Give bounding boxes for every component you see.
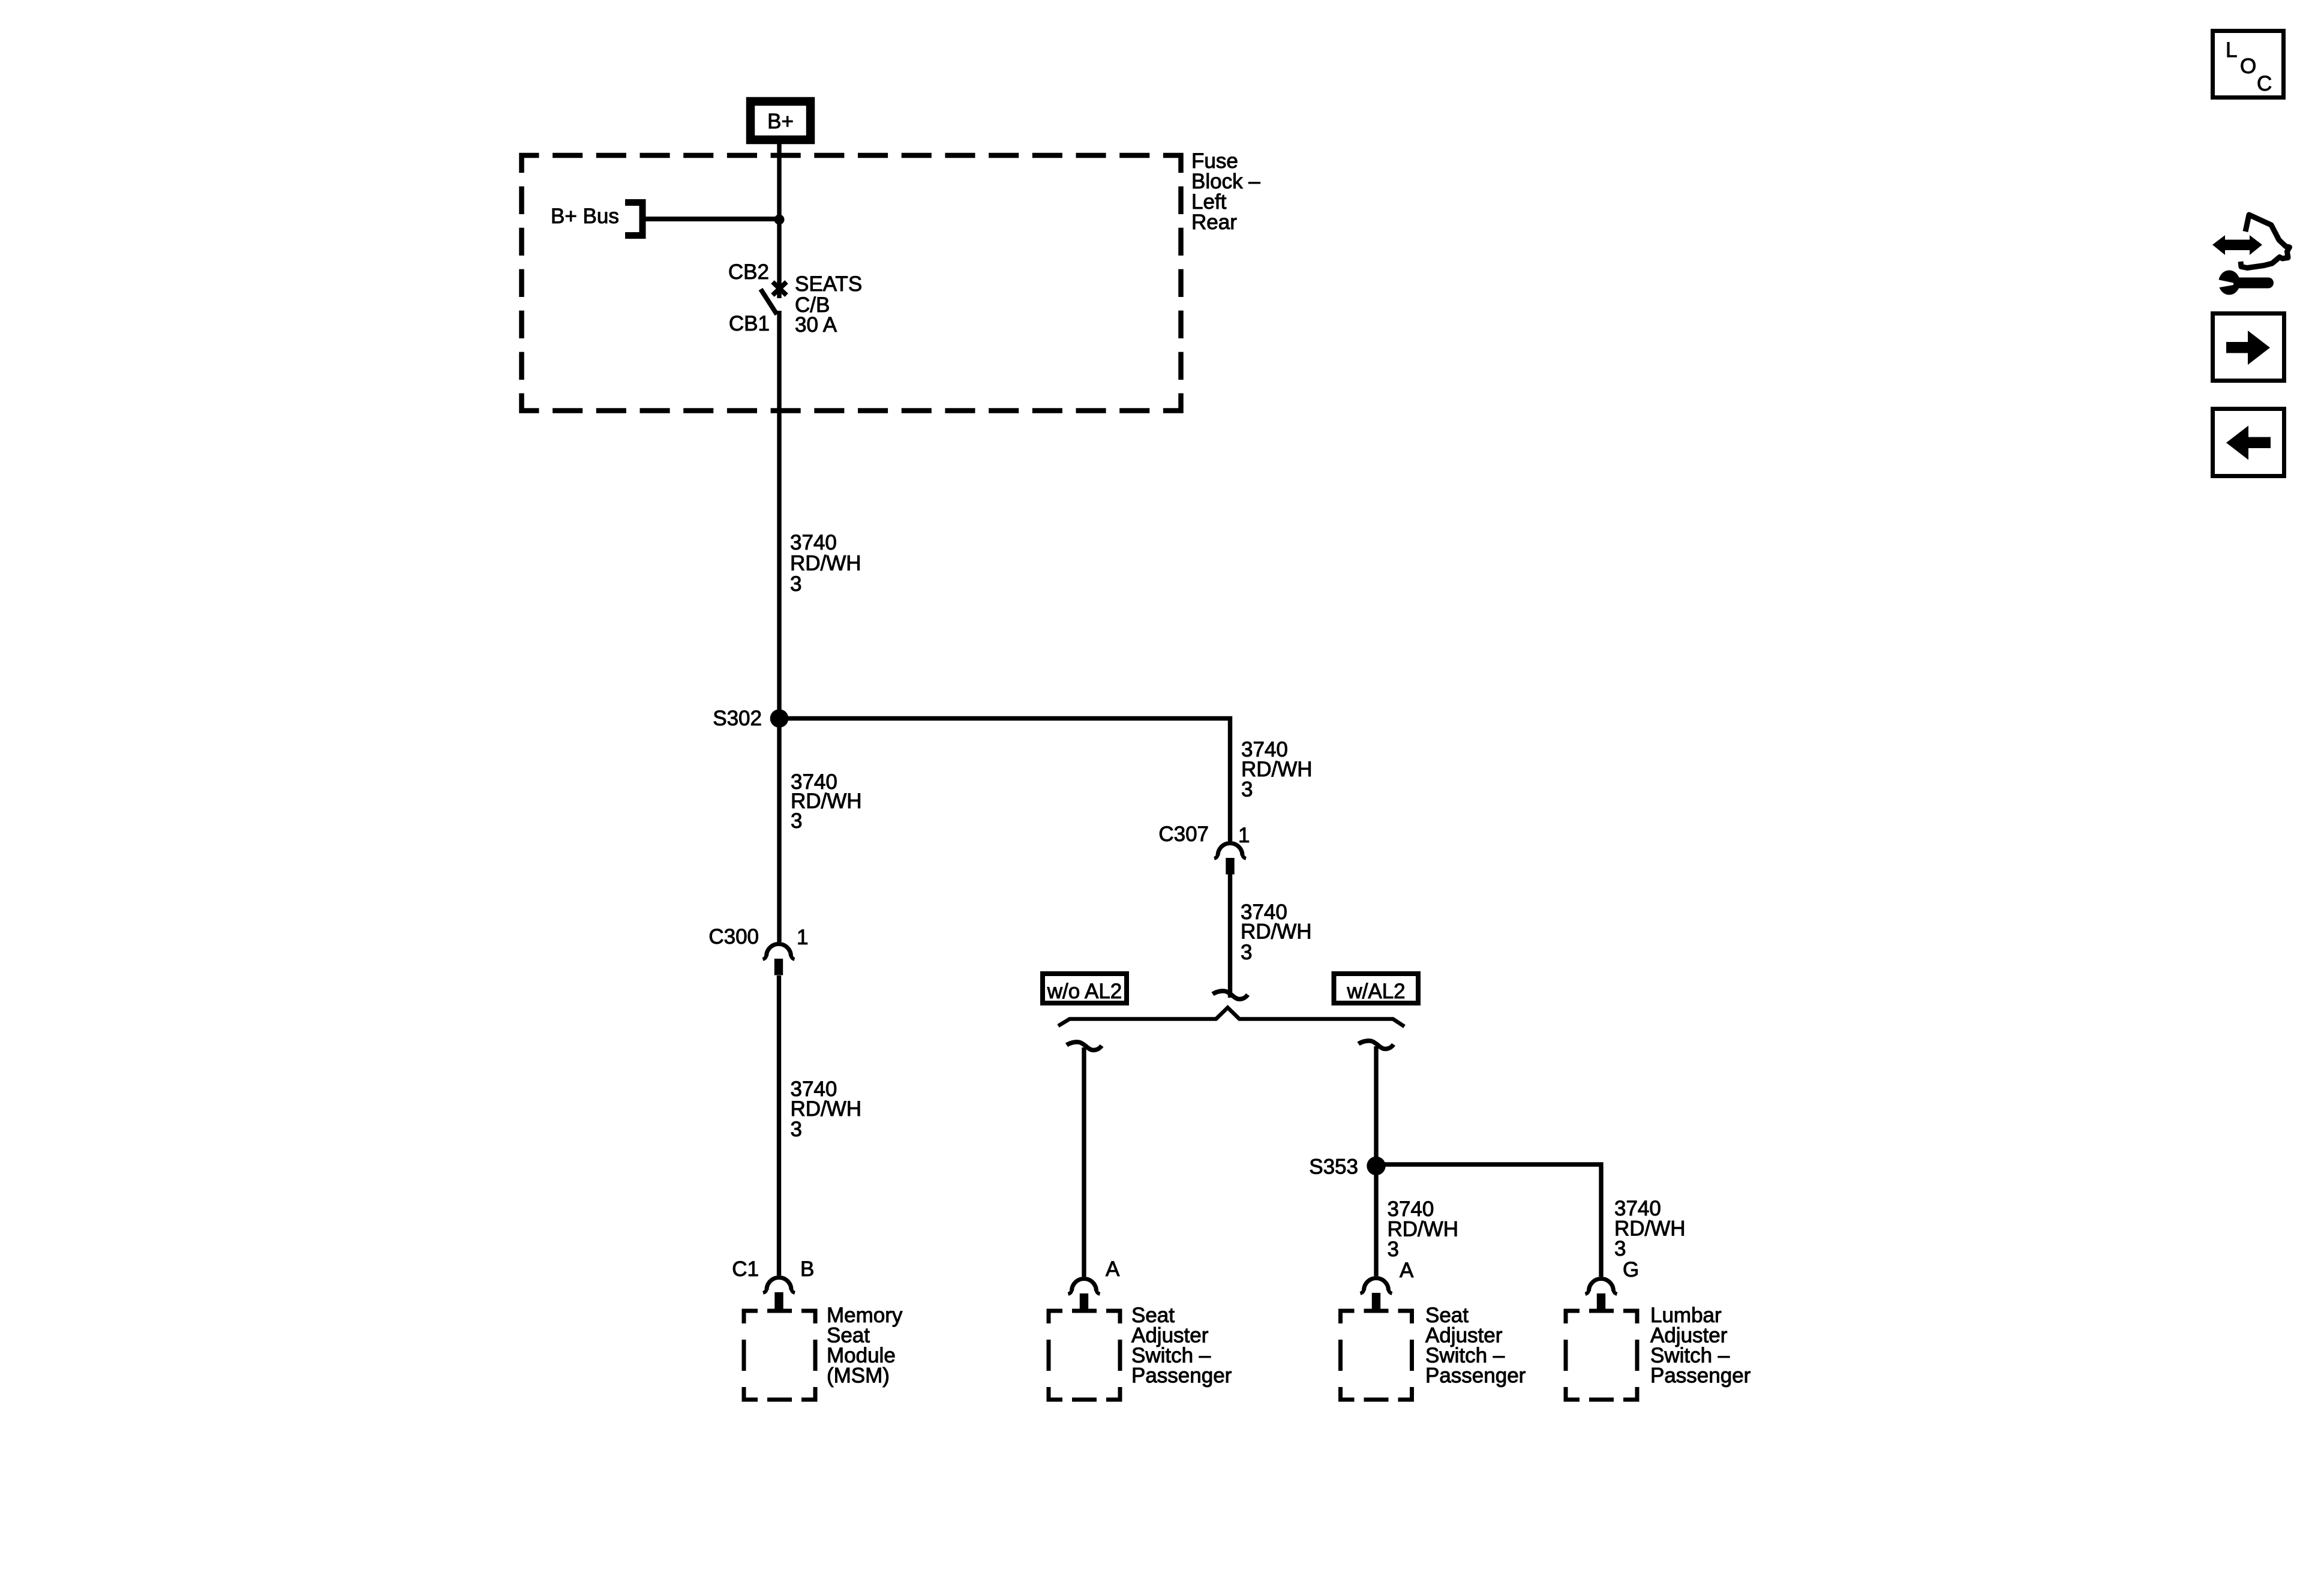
w/o AL2 option box [1043,974,1127,1003]
svg-text:L: L [2226,38,2237,62]
svg-text:B+: B+ [767,110,794,133]
lumbar adjuster switch dashed box [1566,1311,1637,1400]
B+ power symbol box [750,101,810,140]
svg-text:3: 3 [791,1118,802,1141]
svg-text:w/AL2: w/AL2 [1346,980,1405,1003]
svg-text:1: 1 [1238,824,1250,847]
wiring tool icon: double arrow [2212,235,2225,255]
wire B+ Bus to junction [645,217,779,221]
seat adjuster switch center dashed box [1341,1311,1412,1400]
seat adjuster switch left dashed box [1049,1311,1120,1400]
svg-text:B+ Bus: B+ Bus [551,205,619,228]
B+ Bus bracket [625,203,642,236]
svg-text:O: O [2240,55,2256,78]
svg-text:3: 3 [791,809,802,833]
circuit breaker CB contact X [773,282,786,295]
svg-text:3: 3 [1614,1237,1626,1260]
wire break squiggle right branch [1359,1041,1394,1049]
svg-text:RD/WH: RD/WH [1241,920,1312,944]
svg-text:CB2: CB2 [728,260,769,284]
fuse block dashed box [522,155,1181,411]
svg-text:SEATS: SEATS [795,272,862,296]
connector C300 symbol [763,944,795,975]
svg-text:3: 3 [1241,778,1253,801]
connector A left symbol [1068,1279,1100,1310]
svg-text:(MSM): (MSM) [827,1364,890,1388]
splice S302 dot [770,709,789,728]
connector C1 symbol [763,1278,795,1309]
svg-text:B: B [800,1257,814,1281]
svg-text:C: C [2257,72,2272,95]
wiring tool icon: harness outline [2241,215,2290,268]
svg-text:Passenger: Passenger [1131,1364,1232,1388]
LOC icon box [2213,31,2284,98]
svg-text:Rear: Rear [1191,211,1237,234]
svg-text:S302: S302 [713,707,762,730]
svg-text:C1: C1 [732,1257,759,1281]
svg-text:w/o AL2: w/o AL2 [1047,980,1122,1003]
svg-text:1: 1 [797,926,808,949]
node junction dot [774,215,785,225]
svg-text:C300: C300 [708,925,759,948]
svg-text:A: A [1106,1257,1120,1281]
next page arrow box [2213,314,2284,381]
wire C307 down to option split [1228,874,1232,998]
wire B+ box to junction [777,144,781,298]
wire right branch down to S353 [1374,1046,1378,1276]
svg-text:C307: C307 [1158,822,1209,846]
svg-text:Passenger: Passenger [1425,1364,1526,1388]
svg-text:30 A: 30 A [795,313,837,337]
svg-text:3: 3 [1241,941,1252,964]
wire CB1 down to S302 and on to C300 [777,311,781,942]
svg-text:RD/WH: RD/WH [790,552,861,575]
wiring tool icon: wrench [2218,271,2240,295]
wire C300 down to C1 [777,975,781,1275]
wire break squiggle above brace [1213,991,1248,999]
wire S353 to lumbar branch [1376,1164,1601,1277]
w/AL2 option box [1334,974,1419,1003]
wire S302 to C307 branch [779,719,1230,842]
svg-text:3: 3 [1388,1238,1399,1261]
svg-text:3: 3 [790,572,801,596]
memory seat module dashed box [744,1311,815,1400]
previous page arrow box [2213,409,2284,476]
svg-text:3740: 3740 [790,531,837,554]
svg-text:G: G [1623,1258,1639,1281]
wire break squiggle left branch [1067,1042,1102,1050]
svg-text:CB1: CB1 [729,312,770,335]
connector G symbol [1586,1279,1617,1310]
connector C307 symbol [1214,843,1246,875]
svg-text:A: A [1400,1259,1414,1282]
wire left branch down to switch [1082,1047,1086,1277]
splice S353 dot [1367,1157,1385,1175]
svg-text:Passenger: Passenger [1650,1364,1751,1388]
svg-text:S353: S353 [1309,1155,1358,1179]
option split brace [1058,1008,1404,1027]
connector A center symbol [1361,1278,1392,1310]
circuit breaker blade [761,289,777,314]
